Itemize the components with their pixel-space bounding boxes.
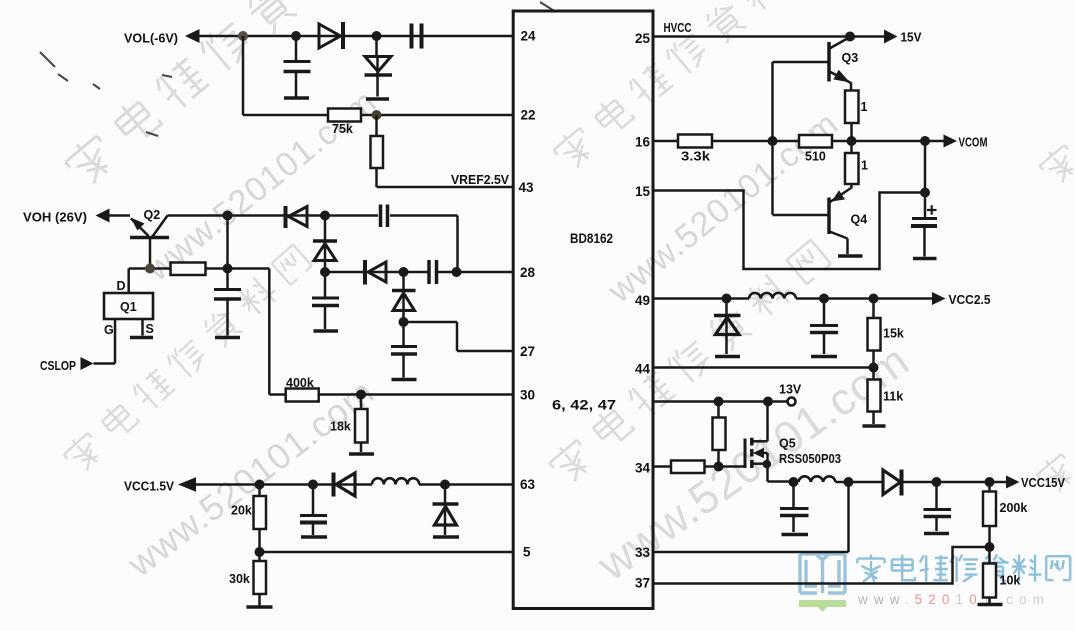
resistor R1b	[845, 141, 859, 189]
svg-text:20k: 20k	[231, 504, 252, 518]
node J10	[399, 267, 409, 277]
ground Q1 source	[130, 336, 153, 340]
resistor 20k	[254, 485, 267, 553]
diode D1	[319, 22, 343, 49]
node J1	[238, 31, 248, 41]
wire pin5 net	[260, 551, 514, 554]
capacitor C9	[810, 299, 838, 355]
svg-text:15k: 15k	[883, 327, 904, 341]
svg-text:www.520101.com: www.520101.com	[857, 592, 1050, 607]
node J11	[452, 267, 462, 277]
scan speckles	[40, 2, 556, 136]
svg-text:3.3k: 3.3k	[681, 150, 710, 164]
svg-text:33: 33	[635, 545, 651, 560]
node J32	[932, 477, 942, 487]
resistor R5	[671, 461, 705, 474]
node Q5 source	[763, 460, 772, 469]
ground C10	[782, 533, 809, 537]
capacitor C3 series	[381, 205, 388, 228]
wire pin27 net	[404, 322, 514, 351]
wire pin28 net	[325, 271, 513, 274]
arrow VOL output	[185, 29, 200, 43]
capacitor C5 series	[429, 260, 437, 284]
resistor R2 vertical	[371, 115, 384, 187]
IC U1 BD8162 outline	[513, 11, 653, 609]
resistor 30k	[254, 552, 267, 606]
node J25	[869, 363, 879, 373]
diode D7	[334, 473, 356, 497]
transistor Q4	[773, 188, 852, 254]
svg-text:15V: 15V	[901, 31, 923, 45]
svg-text:200k: 200k	[1000, 501, 1028, 515]
svg-text:22: 22	[521, 108, 536, 123]
node J14	[255, 480, 265, 490]
wire pin24 net	[199, 35, 513, 38]
wire pins 6,42,47 net	[653, 400, 788, 403]
wire D10 to VCC15V	[903, 481, 1006, 484]
svg-text:VOL(-6V): VOL(-6V)	[124, 31, 178, 46]
ground 10k	[978, 603, 1003, 607]
diode D9 vertical	[714, 299, 741, 355]
svg-text:28: 28	[520, 265, 536, 280]
node J13	[356, 390, 366, 400]
site logo green ribbon	[799, 600, 846, 612]
arrow 15V	[884, 30, 898, 44]
svg-text:Q5: Q5	[779, 437, 796, 451]
wire VCOM to C8	[924, 141, 927, 193]
resistor R3	[171, 263, 206, 276]
resistor 18k	[355, 395, 368, 453]
wire Q2 collector to top net	[168, 216, 458, 273]
node J28	[714, 462, 724, 472]
svg-text:16: 16	[635, 135, 651, 150]
ground C1	[284, 96, 309, 100]
ground 18k	[349, 452, 374, 456]
svg-text:34: 34	[635, 461, 651, 476]
arrow VCC1.5V output	[178, 477, 196, 492]
diode D6 vertical	[392, 272, 416, 322]
ground 30k	[247, 605, 273, 609]
watermark CJK partial right edge	[1037, 142, 1075, 188]
node J6	[320, 211, 330, 221]
ground C7	[301, 535, 327, 539]
svg-text:37: 37	[635, 576, 650, 591]
svg-text:510: 510	[805, 150, 826, 164]
svg-text:30k: 30k	[229, 572, 250, 586]
diode D2	[365, 36, 393, 97]
diode D8 vertical	[433, 485, 459, 536]
svg-text:75k: 75k	[332, 122, 353, 136]
svg-text:VCC15V: VCC15V	[1021, 476, 1066, 490]
ground C6	[392, 378, 417, 382]
svg-text:49: 49	[635, 293, 650, 308]
node J20	[768, 136, 778, 146]
svg-text:D: D	[117, 279, 126, 293]
svg-text:24: 24	[521, 29, 537, 44]
wire Q2 base to Q1 drain	[129, 269, 228, 294]
resistor R4 vertical	[713, 402, 726, 467]
terminal 13V	[788, 398, 796, 406]
node J26	[714, 397, 724, 407]
svg-text:5: 5	[523, 545, 531, 560]
node J15	[308, 480, 318, 490]
svg-text:CSLOP: CSLOP	[40, 359, 76, 373]
svg-text:Q4: Q4	[851, 213, 868, 227]
node J24	[869, 294, 879, 304]
watermark CJK line top-left	[61, 0, 389, 190]
svg-text:44: 44	[635, 362, 651, 377]
svg-text:BD8162: BD8162	[570, 231, 613, 246]
svg-text:Q3: Q3	[842, 51, 859, 65]
svg-text:43: 43	[519, 180, 535, 195]
node J3	[372, 31, 382, 41]
node J34	[985, 542, 995, 552]
wire L3 to diode	[835, 481, 881, 484]
wire pin43 net	[377, 186, 514, 189]
svg-text:27: 27	[520, 344, 535, 359]
wire pin34 net	[653, 465, 746, 468]
capacitor C10	[780, 482, 809, 532]
node J33	[985, 477, 995, 487]
watermark CJK line top-middle	[550, 0, 823, 173]
node J4	[372, 110, 382, 120]
svg-text:15: 15	[635, 184, 651, 199]
wire Q2 base to 400k	[228, 269, 287, 395]
capacitor C6	[391, 322, 417, 378]
node J2	[291, 31, 301, 41]
wire pin63 net	[195, 483, 513, 486]
node J19	[847, 136, 857, 146]
svg-text:13V: 13V	[779, 383, 802, 397]
ground C8	[913, 257, 937, 261]
resistor 510	[799, 135, 832, 148]
node J23	[819, 294, 829, 304]
wire pin30 net	[319, 393, 513, 396]
wire VOH to Q2	[109, 214, 130, 217]
diode D4	[365, 260, 386, 285]
svg-text:HVCC: HVCC	[664, 21, 692, 35]
resistor 75k	[328, 109, 361, 122]
svg-text:1: 1	[861, 159, 868, 173]
node J30	[789, 477, 799, 487]
node J22	[722, 294, 732, 304]
ground 11k	[863, 424, 886, 428]
node J21b	[920, 188, 930, 198]
ground Q4	[838, 254, 863, 258]
ground C4	[314, 329, 339, 333]
site logo book icon	[800, 554, 845, 593]
svg-text:18k: 18k	[330, 420, 351, 434]
svg-text:VCC1.5V: VCC1.5V	[124, 480, 175, 494]
diode D5 vertical	[313, 216, 337, 273]
resistor 400k	[286, 389, 319, 402]
capacitor C4	[312, 272, 339, 329]
svg-text:VREF2.5V: VREF2.5V	[451, 173, 510, 187]
mosfet Q5 RSS050P03	[745, 402, 794, 482]
capacitor C2 series	[412, 24, 422, 49]
svg-text:RSS050P03: RSS050P03	[779, 452, 841, 466]
wire pin16 net	[653, 140, 944, 143]
svg-text:10k: 10k	[1000, 574, 1021, 588]
ground C12	[215, 336, 240, 340]
svg-text:S: S	[146, 322, 154, 336]
wire Q3/Q4 base vertical	[771, 62, 774, 215]
inductor L1	[372, 478, 419, 484]
transistor Q2	[130, 216, 169, 269]
node J27	[763, 397, 773, 407]
svg-text:Q2: Q2	[144, 208, 161, 222]
capacitor C7	[300, 485, 327, 536]
wire pin44 net	[653, 366, 874, 369]
svg-text:Q1: Q1	[120, 300, 137, 314]
Q1 gate wire	[94, 319, 116, 364]
resistor 15k	[868, 299, 881, 368]
node J17	[255, 547, 265, 557]
wire pin22 net	[243, 36, 513, 115]
ground C11	[924, 532, 949, 536]
svg-text:63: 63	[520, 477, 536, 492]
wire pin37 net	[653, 547, 990, 584]
watermark CJK line bottom-left	[61, 243, 314, 476]
wire pin15 net	[653, 191, 925, 270]
watermark CJK partial corner bottom-right	[1034, 451, 1075, 497]
wire J5 down	[226, 216, 229, 269]
svg-text:G: G	[104, 323, 114, 337]
node J18	[845, 32, 855, 42]
Q1 source wire	[141, 319, 144, 336]
diode D10	[883, 470, 902, 496]
node J16	[440, 480, 450, 490]
svg-text:VCOM: VCOM	[959, 136, 988, 150]
node J31	[844, 477, 854, 487]
transistor Q3	[773, 37, 852, 91]
arrow VCC2.5	[932, 292, 946, 305]
site logo CJK text	[857, 555, 1070, 583]
inductor L3	[799, 476, 836, 482]
wire R1a to VCOM	[850, 123, 853, 141]
transistor Q1 box	[104, 293, 153, 319]
svg-text:400k: 400k	[286, 376, 314, 390]
resistor R1a	[845, 91, 859, 124]
node J7	[145, 264, 155, 274]
ground D9	[715, 355, 740, 359]
ground C9	[811, 355, 837, 359]
node J12	[399, 317, 409, 327]
resistor 3.3k	[678, 135, 712, 148]
ground D8	[433, 535, 459, 539]
wire pin25 HVCC net	[653, 35, 885, 38]
capacitor C8 electrolytic	[911, 193, 937, 257]
node J8	[320, 267, 330, 277]
wire pin49 net	[653, 297, 932, 300]
resistor 11k	[868, 368, 881, 425]
resistor 200k	[983, 482, 996, 547]
node J9	[223, 264, 233, 274]
ground D2	[366, 97, 389, 101]
svg-text:VOH (26V): VOH (26V)	[23, 211, 87, 225]
diode D3	[286, 206, 308, 228]
svg-text:11k: 11k	[883, 390, 903, 404]
svg-text:6, 42, 47: 6, 42, 47	[552, 398, 616, 413]
arrow VCC15V	[1006, 476, 1020, 489]
capacitor C12	[214, 269, 241, 336]
arrow CSLOP input	[81, 357, 94, 370]
arrow VOH output	[96, 209, 110, 223]
capacitor C1	[284, 36, 311, 97]
node J21	[920, 136, 930, 146]
node J5	[223, 211, 233, 221]
watermark CJK line center-bottom	[546, 238, 833, 487]
svg-text:1: 1	[861, 100, 868, 114]
capacitor C11	[924, 482, 952, 531]
svg-text:VCC2.5: VCC2.5	[949, 293, 991, 307]
svg-text:25: 25	[635, 31, 651, 46]
wire pin33 net	[653, 482, 849, 552]
arrow VCOM	[944, 135, 958, 148]
resistor 10k	[983, 547, 996, 603]
inductor L2	[749, 293, 796, 299]
svg-text:30: 30	[520, 388, 535, 403]
